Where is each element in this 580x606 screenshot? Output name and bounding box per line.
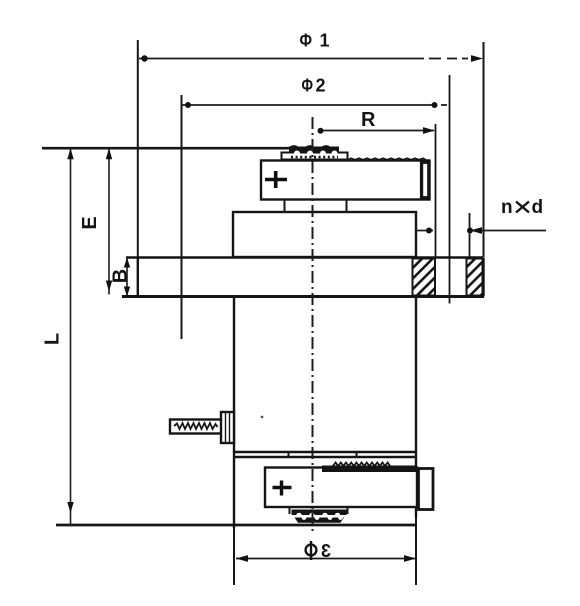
svg-text:L: L [42, 333, 64, 345]
svg-text:n: n [501, 197, 513, 218]
top cap (knurled plug) [282, 146, 348, 160]
lower housing right cap [419, 469, 434, 510]
svg-text:2: 2 [316, 76, 326, 96]
lower housing knurl strip [322, 463, 417, 473]
drain fitting tube [170, 420, 222, 434]
svg-text:Φ: Φ [302, 76, 314, 96]
dimension n x d [416, 197, 546, 257]
main body cylinder [234, 297, 417, 528]
bottom reference line [56, 524, 416, 527]
upper neck box [233, 212, 416, 257]
svg-text:1: 1 [320, 31, 330, 51]
svg-text:d: d [532, 197, 544, 218]
top reference line [42, 147, 290, 150]
plus mark upper [265, 171, 287, 188]
bottom cap (knurled plug) [290, 508, 349, 523]
dimension PHI2 [182, 75, 450, 339]
svg-text:E: E [79, 216, 101, 229]
flange hatched section left block [413, 259, 436, 296]
svg-text:3: 3 [321, 541, 331, 561]
centerline (vertical dash-dot axis) [312, 117, 314, 532]
dimension B [110, 258, 132, 297]
dimension PHI3 [234, 517, 416, 585]
svg-text:Φ: Φ [300, 31, 313, 51]
neck connectors between housing and neck box [285, 200, 347, 213]
upper indicator housing [261, 158, 430, 199]
flange plate [122, 258, 484, 297]
flange hatched section right block [467, 259, 483, 296]
drain fitting collar [221, 412, 234, 443]
dimension PHI1 [138, 31, 484, 258]
dimension R [318, 109, 436, 258]
plus mark lower [273, 481, 292, 496]
small speck on body [261, 416, 264, 419]
svg-text:B: B [110, 269, 132, 283]
lower indicator housing [265, 468, 417, 508]
svg-text:R: R [361, 109, 376, 131]
dimension L [42, 148, 74, 525]
dimension E [79, 148, 112, 294]
lower band connectors [289, 452, 357, 457]
